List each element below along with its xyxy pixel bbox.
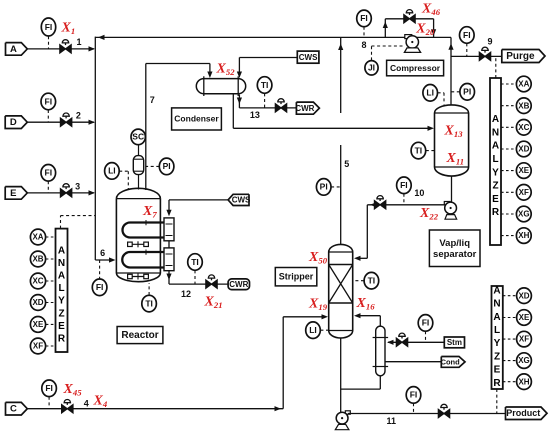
svg-text:8: 8 bbox=[361, 40, 366, 50]
wire dashed product analyzer XD bbox=[503, 295, 517, 297]
svg-text:7: 7 bbox=[150, 95, 155, 105]
svg-text:A: A bbox=[10, 44, 17, 55]
svg-text:A: A bbox=[58, 245, 65, 256]
svg-text:Y: Y bbox=[58, 296, 65, 307]
svg-text:R: R bbox=[58, 334, 66, 345]
svg-text:CWS: CWS bbox=[232, 196, 251, 205]
svg-text:D: D bbox=[10, 117, 17, 128]
product analyzer box bbox=[492, 286, 503, 389]
tag Purge bbox=[502, 50, 545, 63]
wire feed A line bbox=[27, 48, 94, 50]
arrow bypass up bbox=[383, 22, 388, 29]
arrow stream 7 into condenser bbox=[207, 72, 212, 79]
product analyzer ANALYZER text bbox=[493, 285, 501, 388]
wire purge line bbox=[451, 55, 502, 57]
purge analyzer component XD bbox=[516, 141, 531, 157]
wire PI-sep signal dashed bbox=[451, 91, 460, 93]
valve X32 stream 10 bbox=[374, 196, 385, 209]
svg-text:N: N bbox=[58, 258, 65, 269]
wire PI-reactor signal dashed bbox=[146, 165, 160, 167]
wire dashed purge analyzer XF bbox=[501, 191, 517, 193]
svg-text:XC: XC bbox=[32, 277, 43, 286]
product analyzer component XG bbox=[517, 353, 532, 369]
svg-text:FI: FI bbox=[422, 318, 430, 328]
temperature indicator TI stripper bbox=[364, 272, 379, 289]
arrow stream 10 into stripper bbox=[354, 256, 361, 261]
wire dashed purge analyzer XH bbox=[501, 235, 517, 237]
reactor cooling U-coil lower bbox=[122, 252, 164, 268]
wire stream 5 stripper overhead bbox=[340, 145, 342, 244]
svg-text:R: R bbox=[493, 378, 501, 389]
purge analyzer component XA bbox=[516, 76, 531, 92]
valve purge stream 9 bbox=[479, 47, 490, 60]
product analyzer component XD bbox=[517, 288, 532, 304]
wire dashed XA to left analyzer bbox=[46, 236, 56, 238]
arrow bypass down bbox=[431, 29, 436, 36]
flow indicator FI feed E bbox=[41, 165, 56, 182]
arrow condenser CWR down bbox=[237, 98, 242, 105]
svg-text:4: 4 bbox=[84, 399, 89, 409]
temperature indicator TI condenser bbox=[257, 77, 272, 94]
wire feed header vertical bbox=[94, 37, 96, 260]
svg-text:A: A bbox=[492, 114, 499, 125]
wire separator riser bbox=[450, 37, 452, 104]
svg-text:XG: XG bbox=[518, 356, 530, 365]
flow indicator FI steam bbox=[418, 315, 433, 332]
wire dashed XD to left analyzer bbox=[46, 302, 56, 304]
svg-text:X13: X13 bbox=[444, 124, 464, 140]
arrow recycle flow left bbox=[98, 35, 105, 40]
reboiler vessel bbox=[376, 331, 385, 371]
svg-text:Reactor: Reactor bbox=[121, 330, 158, 341]
valve X21 reactor CWR bbox=[206, 275, 217, 288]
stripper pump product bbox=[345, 411, 350, 414]
svg-text:XE: XE bbox=[33, 320, 44, 329]
wire condensate line bbox=[385, 361, 441, 363]
purge analyzer ANALYZER text bbox=[492, 114, 500, 218]
tag Cond bbox=[441, 357, 465, 368]
tag CWS condenser bbox=[297, 51, 319, 63]
valve X1 feed A bbox=[60, 40, 71, 53]
valve X45 feed C bbox=[62, 400, 73, 413]
svg-text:FI: FI bbox=[360, 13, 368, 23]
wire FI-steam signal dashed bbox=[425, 331, 427, 342]
svg-text:A: A bbox=[492, 141, 499, 152]
svg-text:5: 5 bbox=[344, 159, 349, 169]
wire stripper bottoms bbox=[340, 338, 342, 413]
left analyzer component XE bbox=[30, 317, 45, 333]
svg-text:Z: Z bbox=[494, 351, 500, 362]
tag CWR condenser bbox=[295, 102, 319, 114]
wire feed E line bbox=[27, 192, 94, 194]
svg-text:LI: LI bbox=[426, 88, 434, 98]
svg-text:XB: XB bbox=[518, 101, 529, 110]
condenser label box bbox=[172, 108, 222, 130]
svg-text:Purge: Purge bbox=[506, 51, 535, 62]
svg-text:FI: FI bbox=[45, 22, 53, 32]
svg-text:FI: FI bbox=[96, 282, 104, 292]
svg-text:XF: XF bbox=[33, 342, 43, 351]
flow indicator FI stream 6 bbox=[92, 279, 107, 296]
arrow steam into reboiler bbox=[387, 340, 394, 345]
wire FI-6 signal dashed bbox=[99, 260, 101, 279]
reactor agitator mark mid bbox=[128, 243, 148, 245]
left analyzer box bbox=[56, 229, 68, 352]
left analyzer component XD bbox=[30, 295, 45, 311]
svg-text:A: A bbox=[493, 285, 500, 296]
feed tag E bbox=[5, 187, 27, 200]
feed tag D bbox=[5, 116, 27, 129]
separator vessel bbox=[435, 113, 469, 167]
left analyzer component XA bbox=[30, 229, 45, 245]
wire dashed XE to left analyzer bbox=[46, 323, 56, 325]
wire FI-E signal dashed bbox=[47, 181, 49, 193]
svg-text:X22: X22 bbox=[419, 206, 439, 222]
wire reactor CWS line bbox=[169, 199, 228, 201]
flow indicator FI recycle bbox=[357, 10, 372, 27]
wire FI-C signal dashed bbox=[48, 397, 50, 409]
wire product analyzer sample dashed bbox=[496, 389, 498, 414]
svg-text:A: A bbox=[493, 312, 500, 323]
wire feed C into stripper bbox=[283, 316, 325, 318]
svg-text:X1: X1 bbox=[61, 21, 76, 37]
svg-text:X16: X16 bbox=[356, 296, 376, 312]
svg-text:R: R bbox=[492, 207, 500, 218]
tag Stm bbox=[444, 337, 464, 348]
wire reactor CW outlet bbox=[168, 271, 170, 284]
arrow into separator bbox=[428, 126, 435, 131]
arrow reactor CWS down bbox=[166, 210, 171, 217]
svg-text:XA: XA bbox=[32, 233, 43, 242]
svg-text:X4: X4 bbox=[93, 394, 108, 410]
valve steam bbox=[396, 333, 407, 346]
tag CWR reactor bbox=[228, 279, 249, 290]
temperature indicator TI reactor CW bbox=[188, 254, 203, 271]
tag CWS reactor bbox=[228, 194, 251, 205]
svg-text:11: 11 bbox=[387, 416, 397, 426]
stripper label box bbox=[275, 268, 317, 286]
wire dashed XC to left analyzer bbox=[46, 280, 56, 282]
wire dashed purge analyzer XD bbox=[501, 148, 517, 150]
svg-text:XD: XD bbox=[32, 298, 43, 307]
svg-text:TI: TI bbox=[261, 80, 269, 90]
svg-text:Z: Z bbox=[58, 308, 64, 319]
left analyzer component XB bbox=[30, 251, 45, 267]
svg-text:X19: X19 bbox=[308, 297, 328, 313]
wire left analyzer sample dashed bbox=[60, 216, 62, 229]
level indicator LI stripper bbox=[306, 322, 321, 339]
wire condenser CWR bbox=[238, 95, 240, 108]
svg-text:X50: X50 bbox=[308, 250, 328, 266]
wire steam line bbox=[388, 341, 444, 343]
purge analyzer component XB bbox=[516, 98, 531, 114]
svg-text:LI: LI bbox=[309, 325, 317, 335]
svg-text:CWS: CWS bbox=[299, 53, 318, 62]
svg-text:L: L bbox=[492, 154, 498, 165]
svg-text:XD: XD bbox=[518, 145, 529, 154]
separator pump X22 bbox=[444, 202, 450, 205]
reactor label box bbox=[117, 327, 163, 344]
arrow stream 10 left bbox=[370, 202, 377, 207]
arrow reactor CW outlet down bbox=[166, 274, 171, 281]
wire stream 6 into reactor bbox=[95, 259, 112, 261]
svg-text:E: E bbox=[492, 194, 499, 205]
reactor coil header box lower bbox=[164, 248, 174, 271]
left analyzer ANALYZER text bbox=[58, 245, 66, 344]
reactor agitator mark bottom bbox=[128, 276, 148, 278]
svg-text:10: 10 bbox=[414, 188, 424, 198]
arrow stream 6 into reactor bbox=[109, 257, 116, 262]
left analyzer component XC bbox=[30, 273, 45, 289]
svg-text:XE: XE bbox=[518, 166, 529, 175]
svg-text:SC: SC bbox=[132, 132, 144, 142]
feed tag C bbox=[6, 402, 28, 415]
svg-text:Cond: Cond bbox=[441, 357, 461, 366]
svg-text:CWR: CWR bbox=[229, 280, 248, 289]
tag Product bbox=[506, 407, 548, 420]
wire JI-compressor signal dashed bbox=[371, 46, 373, 60]
valve X2 feed D bbox=[60, 113, 71, 126]
arrow feed E bbox=[89, 190, 96, 195]
svg-text:E: E bbox=[10, 188, 16, 199]
svg-text:Y: Y bbox=[492, 167, 499, 178]
svg-text:2: 2 bbox=[76, 110, 81, 120]
wire reactor CWR line bbox=[169, 283, 228, 285]
wire dashed product analyzer XE bbox=[503, 317, 517, 319]
svg-text:X11: X11 bbox=[446, 151, 465, 167]
svg-text:Compressor: Compressor bbox=[390, 63, 441, 73]
level indicator LI reactor bbox=[105, 163, 120, 180]
power indicator JI compressor bbox=[365, 61, 378, 75]
wire feed C line bbox=[27, 408, 283, 410]
svg-text:LI: LI bbox=[108, 166, 116, 176]
wire FI-purge signal dashed bbox=[466, 43, 468, 56]
svg-text:C: C bbox=[10, 404, 17, 415]
arrow condenser CWS down bbox=[237, 72, 242, 79]
svg-text:XF: XF bbox=[519, 335, 529, 344]
svg-text:XF: XF bbox=[519, 188, 529, 197]
arrow feed A bbox=[89, 46, 96, 51]
svg-text:X20: X20 bbox=[415, 22, 435, 38]
wire TI-sep signal dashed bbox=[426, 150, 435, 152]
flow indicator FI feed D bbox=[41, 93, 56, 110]
compressor label box bbox=[387, 60, 444, 76]
svg-text:1: 1 bbox=[76, 37, 81, 47]
wire TI-reactorbottom signal dashed bbox=[148, 283, 150, 295]
svg-text:TI: TI bbox=[415, 145, 423, 155]
pressure indicator PI stripper bbox=[316, 179, 331, 196]
stripper column bbox=[329, 252, 353, 331]
flow indicator FI feed A bbox=[41, 18, 55, 36]
wire dashed purge analyzer XB bbox=[501, 105, 517, 107]
svg-text:FI: FI bbox=[463, 30, 471, 40]
svg-text:CWR: CWR bbox=[295, 104, 314, 113]
svg-text:XH: XH bbox=[518, 231, 529, 240]
svg-text:TI: TI bbox=[368, 275, 376, 285]
wire stream 10 bbox=[367, 204, 444, 206]
flow indicator FI purge bbox=[460, 27, 475, 44]
reactor cooling U-coil upper bbox=[123, 223, 165, 238]
svg-text:X7: X7 bbox=[142, 204, 157, 220]
product analyzer component XF bbox=[517, 331, 532, 347]
arrow reboiler return bbox=[354, 313, 361, 318]
wire dashed product analyzer XH bbox=[503, 381, 517, 383]
svg-text:FI: FI bbox=[45, 383, 53, 393]
reactor coil header box upper bbox=[164, 218, 174, 241]
svg-text:XH: XH bbox=[518, 377, 529, 386]
svg-text:XG: XG bbox=[518, 210, 530, 219]
wire dashed XB to left analyzer bbox=[46, 258, 56, 260]
wire FI-D signal dashed bbox=[47, 110, 49, 122]
wire reboiler bottom bbox=[379, 376, 381, 390]
svg-text:FI: FI bbox=[400, 180, 408, 190]
wire product line bbox=[348, 413, 506, 415]
wire dashed XF to left analyzer bbox=[46, 345, 56, 347]
vap liq separator label box bbox=[429, 230, 480, 267]
wire dashed purge analyzer XA bbox=[501, 83, 517, 85]
flow indicator FI stream 10 bbox=[397, 177, 412, 194]
svg-text:separator: separator bbox=[433, 249, 477, 260]
pressure indicator PI separator bbox=[460, 84, 475, 101]
wire FI-product signal dashed bbox=[413, 403, 415, 413]
arrow stream 5 up bbox=[338, 44, 343, 51]
svg-text:9: 9 bbox=[487, 36, 492, 46]
arrow riser up to recycle bbox=[448, 43, 453, 50]
arrow feed C into stripper bbox=[322, 314, 329, 319]
svg-text:Condenser: Condenser bbox=[174, 114, 219, 124]
arrow feed C before riser bbox=[275, 406, 282, 411]
svg-text:FI: FI bbox=[410, 390, 418, 400]
wire FI-recycle signal dashed bbox=[363, 27, 365, 38]
valve product stream 11 bbox=[438, 404, 449, 417]
svg-text:Vap/liq: Vap/liq bbox=[439, 238, 470, 249]
reactor agitator shaft capsule bbox=[133, 156, 143, 175]
purge analyzer box bbox=[490, 78, 501, 245]
left analyzer component XF bbox=[30, 338, 45, 354]
wire stream 7 reactor to condenser bbox=[145, 64, 147, 191]
pressure indicator PI reactor bbox=[159, 158, 174, 175]
stripper packing section bbox=[329, 264, 353, 266]
svg-text:L: L bbox=[494, 325, 500, 336]
purge analyzer component XC bbox=[516, 120, 531, 136]
wire dashed purge analyzer XC bbox=[501, 126, 517, 128]
wire LI-sep signal dashed bbox=[438, 92, 444, 94]
reactor vessel bbox=[116, 199, 160, 273]
svg-text:E: E bbox=[58, 321, 65, 332]
svg-text:Stripper: Stripper bbox=[279, 272, 314, 282]
svg-text:PI: PI bbox=[163, 161, 171, 171]
level indicator LI separator bbox=[423, 85, 438, 102]
svg-text:XA: XA bbox=[518, 80, 529, 89]
wire TI-cond signal dashed bbox=[264, 93, 266, 108]
svg-text:XD: XD bbox=[518, 291, 529, 300]
wire TI-stripper signal dashed bbox=[353, 280, 364, 282]
svg-text:X52: X52 bbox=[216, 62, 236, 78]
wire dashed product analyzer XG bbox=[503, 360, 517, 362]
svg-text:3: 3 bbox=[75, 181, 80, 191]
svg-text:N: N bbox=[492, 127, 499, 138]
wire dashed purge analyzer XG bbox=[501, 213, 517, 215]
wire LI-stripper signal dashed bbox=[320, 329, 328, 331]
wire FI-A signal dashed bbox=[48, 36, 50, 49]
speed controller SC bbox=[131, 129, 145, 145]
purge analyzer component XF bbox=[516, 185, 531, 201]
svg-text:Product: Product bbox=[506, 408, 540, 418]
svg-text:JI: JI bbox=[368, 63, 375, 73]
flow indicator FI feed C bbox=[42, 380, 57, 397]
svg-text:X46: X46 bbox=[421, 2, 441, 18]
wire purge analyzer sample dashed bbox=[495, 56, 497, 78]
svg-text:12: 12 bbox=[181, 289, 191, 299]
product analyzer component XH bbox=[517, 374, 532, 390]
svg-text:A: A bbox=[58, 271, 65, 282]
wire TI-rcw signal dashed bbox=[194, 270, 196, 284]
valve condenser CWR bbox=[275, 99, 286, 112]
flow indicator FI product bbox=[406, 387, 421, 404]
arrow feed D bbox=[89, 120, 96, 125]
purge analyzer component XH bbox=[516, 228, 531, 244]
wire LI-reactor signal dashed bbox=[119, 170, 128, 172]
wire recycle stream 8 top header bbox=[95, 36, 451, 38]
svg-text:FI: FI bbox=[45, 168, 53, 178]
temperature indicator TI reactor bbox=[142, 295, 157, 312]
svg-text:13: 13 bbox=[250, 110, 260, 120]
wire FI-10 signal dashed bbox=[403, 194, 405, 205]
svg-text:X45: X45 bbox=[63, 382, 83, 398]
svg-text:N: N bbox=[493, 299, 500, 310]
purge analyzer component XG bbox=[516, 206, 531, 222]
svg-text:FI: FI bbox=[45, 96, 53, 106]
wire feed D line bbox=[27, 121, 94, 123]
temperature indicator TI separator bbox=[411, 142, 426, 159]
wire reboiler return to stripper bbox=[379, 316, 381, 326]
condenser vessel bbox=[204, 79, 238, 94]
wire condenser outlet to separator bbox=[232, 95, 234, 129]
wire dashed product analyzer XF bbox=[503, 338, 517, 340]
wire feed C riser bbox=[282, 317, 284, 409]
svg-text:E: E bbox=[494, 365, 501, 376]
svg-text:XB: XB bbox=[32, 255, 43, 264]
svg-text:X21: X21 bbox=[204, 295, 223, 311]
wire PI-stripper signal dashed bbox=[331, 186, 341, 188]
wire compressor bypass loop bbox=[384, 19, 386, 38]
wire separator bottom to pump bbox=[451, 176, 453, 203]
svg-text:PI: PI bbox=[463, 87, 471, 97]
svg-text:6: 6 bbox=[100, 248, 105, 258]
svg-text:PI: PI bbox=[320, 182, 328, 192]
svg-text:Z: Z bbox=[492, 181, 498, 192]
wire reactor coil connect bbox=[168, 241, 170, 248]
svg-text:Stm: Stm bbox=[447, 338, 462, 347]
purge analyzer component XE bbox=[516, 163, 531, 179]
wire dashed purge analyzer XE bbox=[501, 170, 517, 172]
valve X46 compressor bypass bbox=[404, 10, 415, 23]
feed tag A bbox=[6, 43, 28, 56]
compressor bbox=[405, 35, 412, 39]
product analyzer component XE bbox=[517, 310, 532, 326]
svg-text:L: L bbox=[58, 283, 64, 294]
svg-text:TI: TI bbox=[145, 298, 153, 308]
wire condenser CWS bbox=[239, 57, 297, 59]
svg-text:TI: TI bbox=[191, 257, 199, 267]
svg-text:XC: XC bbox=[518, 123, 529, 132]
svg-text:XE: XE bbox=[519, 313, 530, 322]
valve X3 feed E bbox=[60, 184, 71, 197]
svg-text:Y: Y bbox=[494, 338, 501, 349]
